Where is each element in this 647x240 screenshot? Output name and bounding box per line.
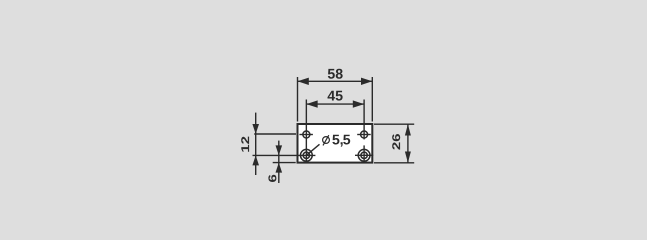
label 5,5 [332,135,350,147]
dimension 45 [306,100,364,107]
hole H3 bottom-left [300,149,312,161]
label 58 [328,69,343,79]
hole H4 bottom-right [355,149,373,161]
hole H1 top-left [299,131,313,138]
centerline right hole column upper [363,100,365,140]
centerline right hole column lower [363,145,365,163]
label 45 [328,91,343,101]
leader line for diameter [306,144,319,155]
label 6 [268,175,276,182]
hole H2 top-right [357,131,371,138]
centerline left hole column [305,100,307,164]
plate outline [298,124,373,163]
dimension 58 [298,77,373,122]
centerline bottom holes (extension for 12 and 6) [253,154,316,156]
dimension 6 [273,141,296,183]
diameter symbol [323,135,330,145]
label 26 [392,134,400,150]
dimension 26 [374,124,414,163]
dimension 12 [252,113,296,175]
label 12 [241,137,249,152]
